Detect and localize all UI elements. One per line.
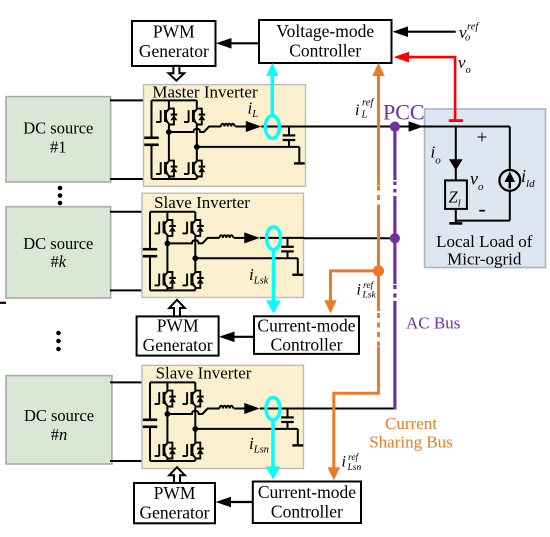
cyan sense line slave k (266, 250, 281, 314)
wire slave-n output to AC bus (304, 408, 395, 410)
DC source #1 box (6, 97, 111, 182)
current sensor ring slave n (266, 397, 280, 420)
svg-text:ref: ref (362, 98, 375, 109)
svg-text:Local Load of: Local Load of (436, 232, 533, 251)
hollow arrow PWM3 to slave-n inverter (169, 467, 185, 483)
slave inverter n cell (143, 382, 304, 461)
svg-text:Generator: Generator (140, 503, 210, 523)
current sensor ring slave k (267, 227, 281, 250)
svg-text:ref: ref (467, 22, 480, 33)
DC source #n box (6, 376, 112, 464)
load bottom wire (456, 220, 510, 222)
wire master output to load (306, 126, 510, 128)
svg-text:Generator: Generator (143, 335, 213, 355)
svg-text:L: L (361, 110, 368, 121)
purple slave-k junction dot (390, 233, 400, 243)
purple PCC junction dot (390, 122, 400, 132)
cyan sense line slave n (266, 420, 281, 479)
svg-text:i: i (355, 102, 359, 119)
svg-text:DC source: DC source (23, 234, 93, 253)
load left branch with io arrow (449, 127, 463, 181)
svg-text:ref: ref (348, 452, 360, 463)
svg-text:PWM: PWM (157, 316, 199, 336)
slave inverter k cell (143, 212, 304, 291)
orange junction dot (373, 265, 384, 276)
orange arrowhead into VM controller (372, 63, 385, 76)
master inverter box (144, 85, 306, 187)
wire DCn to slave-n bottom (110, 460, 151, 462)
red vo feedback trace (394, 52, 464, 122)
svg-text:Controller: Controller (271, 335, 343, 355)
wire DCn to slave-n top (110, 381, 151, 383)
arrowhead into load (409, 121, 424, 131)
hollow arrow PWM2 to slave-k inverter (169, 300, 185, 317)
load ground (449, 209, 462, 224)
stray tick left edge (0, 302, 6, 304)
svg-text:Current-mode: Current-mode (257, 316, 355, 336)
svg-text:Current: Current (385, 414, 437, 433)
current-mode controller 2 box (253, 482, 361, 524)
cyan sense line master (266, 63, 278, 116)
svg-text:Controller: Controller (271, 502, 343, 522)
load current source circle (499, 170, 520, 191)
slave inverter k box (142, 193, 304, 297)
svg-text:Master Inverter: Master Inverter (152, 83, 258, 102)
voltage-mode controller box (259, 20, 392, 63)
svg-text:-: - (478, 196, 485, 221)
load top-right branch (509, 127, 511, 171)
svg-text:Slave Inverter: Slave Inverter (154, 193, 250, 212)
svg-text:DC source: DC source (24, 406, 94, 425)
svg-text:PWM: PWM (153, 22, 195, 42)
orange current sharing bus main (334, 75, 379, 470)
svg-text:Sharing Bus: Sharing Bus (369, 433, 453, 452)
svg-text:#n: #n (51, 425, 68, 444)
DC source #k box (6, 207, 111, 298)
svg-text:Slave Inverter: Slave Inverter (156, 364, 252, 383)
PWM generator 1 box (132, 21, 216, 66)
dots between DCk and DCn (56, 331, 61, 352)
wire DCk to slave-k top (110, 211, 151, 213)
arrow VM controller to PWM1 (216, 38, 259, 49)
svg-text:Generator: Generator (139, 41, 209, 61)
svg-text:i: i (357, 282, 361, 299)
svg-text:Current-mode: Current-mode (258, 482, 356, 502)
svg-text:ref: ref (363, 280, 375, 291)
svg-text:Lsn: Lsn (347, 463, 362, 473)
local load box (425, 109, 546, 268)
master inverter cell (144, 100, 305, 179)
Zl impedance box (445, 180, 467, 209)
svg-text:#1: #1 (50, 138, 67, 157)
svg-text:+: + (477, 128, 488, 149)
arrow CMC1 to PWM2 (219, 332, 254, 343)
dots between DC1 and DCk (58, 186, 63, 206)
orange branch to CMC1 (324, 271, 378, 313)
current sensor ring master (265, 116, 279, 139)
svg-text:Lsk: Lsk (362, 291, 377, 301)
hollow arrow PWM1 to master inverter (169, 66, 185, 81)
svg-text:PCC: PCC (383, 100, 425, 125)
svg-text:o: o (465, 33, 470, 44)
current-mode controller 1 box (254, 316, 359, 355)
PWM generator 2 box (137, 316, 219, 356)
PWM generator 3 box (134, 483, 215, 523)
wire slave-k output to AC bus (304, 237, 395, 239)
svg-text:Voltage-mode: Voltage-mode (276, 21, 374, 41)
wire DC1 to master bottom (110, 178, 152, 180)
slave inverter n box (142, 365, 304, 468)
svg-text:Controller: Controller (289, 41, 361, 61)
wire DCk to slave-k bottom (110, 289, 151, 291)
svg-text:i: i (342, 454, 346, 471)
orange arrowhead into CMC2 (328, 467, 341, 480)
svg-text:#k: #k (51, 252, 67, 271)
black voref arrow (393, 26, 456, 37)
wire DC1 to master top (110, 99, 152, 101)
svg-text:AC Bus: AC Bus (406, 314, 460, 333)
load right branch lower (509, 191, 511, 221)
purple AC bus (393, 127, 396, 410)
svg-text:DC source: DC source (23, 119, 93, 138)
svg-text:PWM: PWM (154, 483, 196, 503)
svg-text:vo: vo (458, 53, 471, 76)
svg-text:Micr-ogrid: Micr-ogrid (447, 250, 522, 269)
arrow CMC2 to PWM3 (216, 497, 253, 508)
